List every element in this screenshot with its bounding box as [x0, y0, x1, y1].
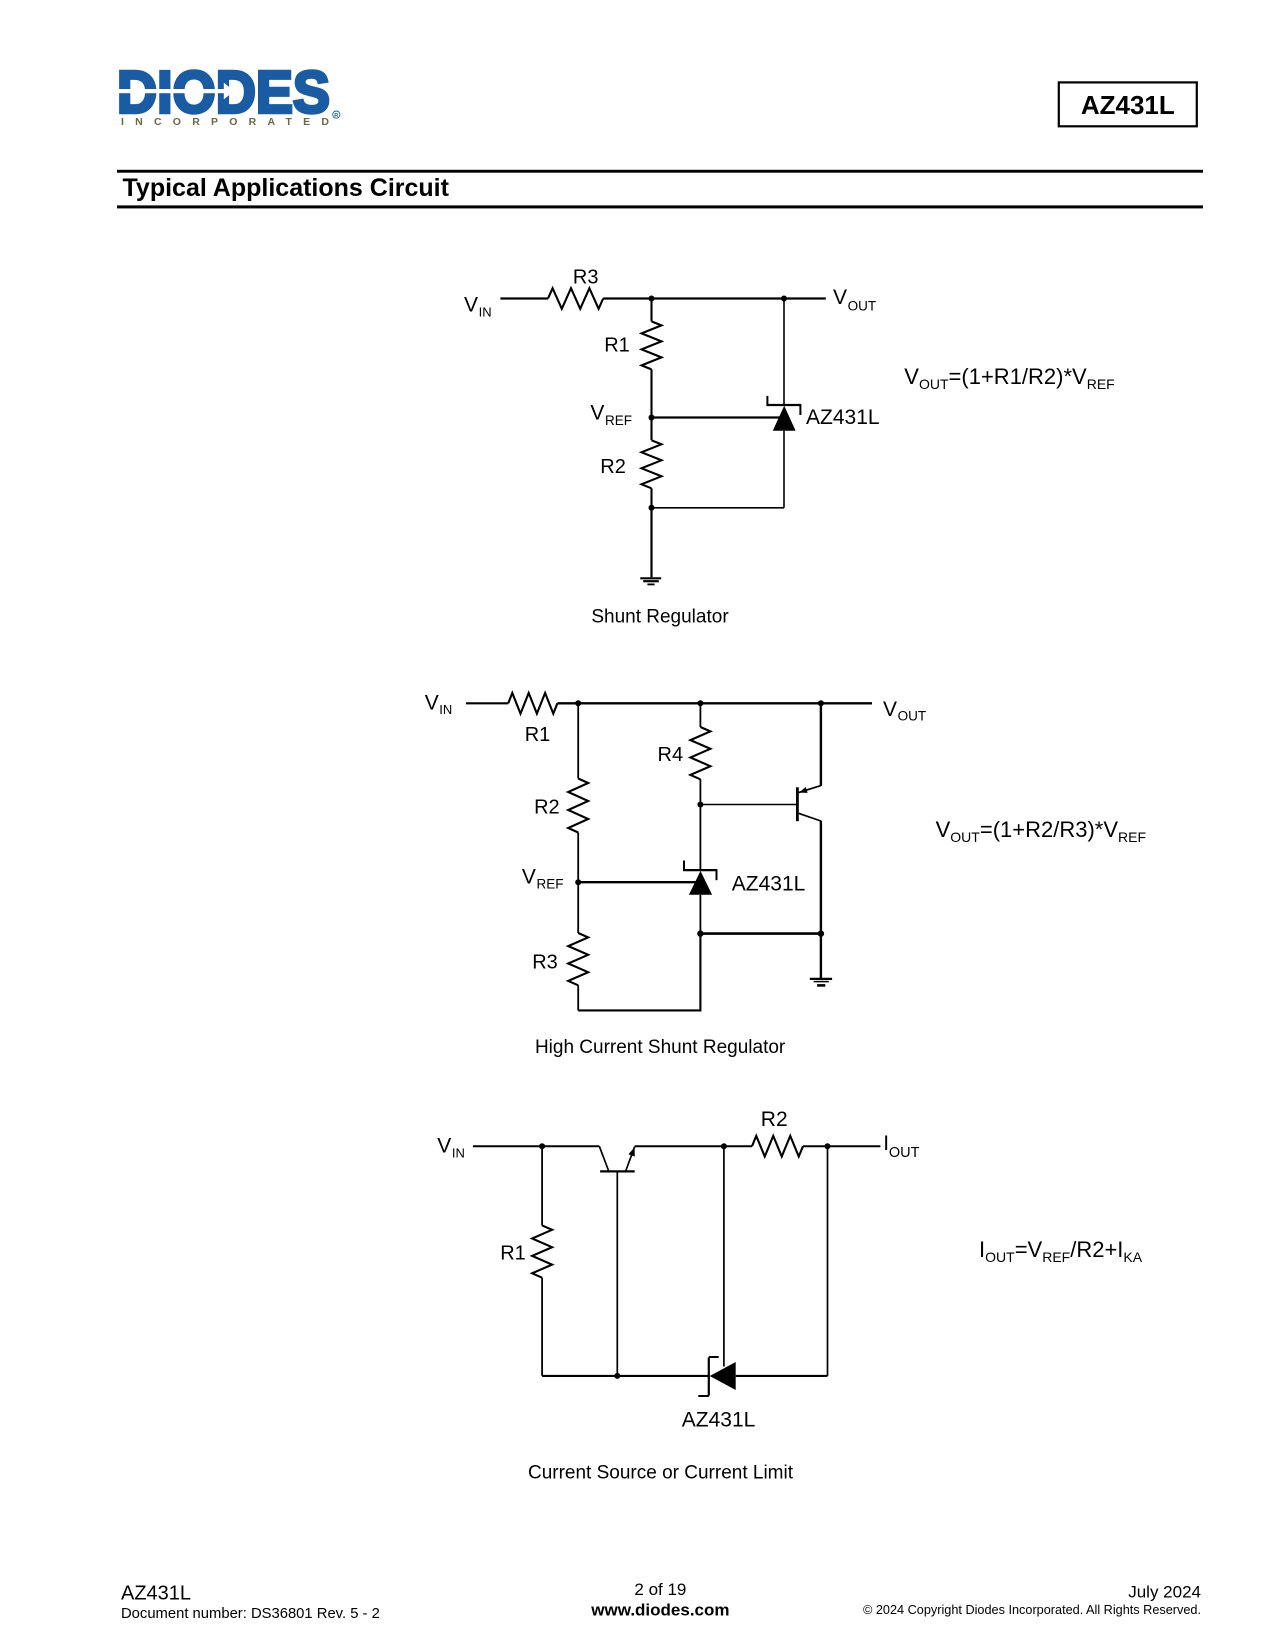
wire R4 to node D2	[699, 779, 701, 804]
svg-text:R1: R1	[525, 724, 551, 746]
wire node A2 down to R2	[577, 703, 579, 778]
resistor R3	[548, 288, 603, 309]
wire C2 to VOUT	[821, 702, 872, 704]
svg-text:V: V	[464, 294, 478, 317]
svg-text:VOUT=(1+R1/R2)*VREF: VOUT=(1+R1/R2)*VREF	[904, 364, 1114, 392]
wire node A to node B	[652, 297, 785, 299]
node B junction dot	[781, 296, 787, 302]
wire VIN to R1	[466, 702, 508, 704]
wire node D2 down to U2 cathode	[699, 805, 701, 871]
svg-text:Shunt Regulator: Shunt Regulator	[591, 606, 729, 627]
svg-text:July 2024: July 2024	[1128, 1583, 1201, 1602]
node D3 junction dot	[614, 1373, 620, 1379]
svg-text:R2: R2	[761, 1108, 788, 1131]
node VIN label	[464, 294, 492, 320]
svg-text:R2: R2	[600, 456, 626, 478]
svg-text:R1: R1	[500, 1242, 526, 1264]
wire R2 to node C3	[803, 1145, 828, 1147]
wire R2 to node VREF2	[577, 833, 579, 934]
wire node B3 down to U3 cathode	[723, 1146, 725, 1366]
svg-text:AZ431L: AZ431L	[1081, 90, 1175, 120]
wire node B3 to R2	[724, 1145, 752, 1147]
svg-text:R1: R1	[604, 335, 630, 357]
wire bottom rail	[578, 934, 700, 1011]
wire node B to VOUT	[784, 297, 826, 299]
wire node C to ground	[650, 508, 652, 578]
node IOUT label	[883, 1132, 919, 1161]
CIRCUIT-2 High Current Shunt Regulator	[425, 691, 1146, 1058]
node VREF2 junction dot	[575, 879, 581, 885]
svg-text:V: V	[883, 698, 897, 721]
svg-text:REF: REF	[537, 877, 564, 892]
node F2 junction dot	[818, 930, 824, 936]
node E2 junction dot	[697, 930, 703, 936]
CIRCUIT-3 Current Source or Current Limit	[437, 1108, 1142, 1483]
wire R2 to node C	[650, 488, 652, 508]
Diodes Incorporated logo	[116, 60, 340, 128]
wire node B down to U1 cathode	[783, 299, 785, 406]
svg-text:R3: R3	[573, 267, 599, 289]
svg-text:IN: IN	[479, 304, 492, 319]
wire Q2 emitter to node B3	[635, 1145, 724, 1147]
transistor Q1 PNP	[797, 703, 821, 933]
node D2 junction dot	[697, 802, 703, 808]
resistor R2	[752, 1136, 803, 1157]
svg-text:2 of 19: 2 of 19	[634, 1580, 686, 1599]
svg-text:R2: R2	[534, 797, 560, 819]
wire node C3 down to bottom rail	[827, 1146, 829, 1376]
svg-text:© 2024 Copyright Diodes Incorp: © 2024 Copyright Diodes Incorporated. Al…	[863, 1603, 1201, 1617]
svg-text:OUT: OUT	[889, 1145, 920, 1161]
svg-text:R4: R4	[658, 744, 684, 766]
shunt regulator U3 AZ431L symbol	[698, 1357, 735, 1396]
resistor R1	[642, 321, 662, 369]
wire U1 anode down to node C branch	[783, 431, 785, 508]
svg-text:R: R	[334, 113, 338, 119]
svg-text:V: V	[522, 865, 536, 888]
resistor R2	[568, 779, 588, 833]
resistor R1	[508, 693, 557, 714]
node VOUT label	[833, 286, 876, 314]
wire node B2 down to R4	[699, 703, 701, 727]
wire bottom rail left	[542, 1375, 709, 1377]
node VREF2 label	[522, 865, 564, 891]
svg-text:AZ431L: AZ431L	[732, 872, 806, 895]
shunt regulator U1 AZ431L symbol	[767, 396, 802, 431]
svg-text:AZ431L: AZ431L	[682, 1409, 756, 1432]
svg-text:V: V	[833, 286, 847, 309]
node C2 junction dot	[818, 700, 824, 706]
wire top rail A2 to B2	[578, 702, 700, 704]
wire R3 to bottom rail	[577, 985, 579, 1010]
svg-text:OUT: OUT	[848, 299, 877, 314]
node VIN label	[425, 691, 453, 717]
PAGE-HEADER	[116, 60, 1203, 209]
wire Q2 base down to node D3	[616, 1171, 618, 1376]
wire VIN to node A3	[473, 1145, 542, 1147]
svg-text:V: V	[437, 1135, 451, 1158]
node C junction dot	[649, 505, 655, 511]
wire base of Q1	[700, 804, 796, 806]
svg-text:Current Source or Current Limi: Current Source or Current Limit	[528, 1463, 794, 1484]
node B3 junction dot	[721, 1143, 727, 1149]
svg-text:Typical Applications Circuit: Typical Applications Circuit	[123, 174, 450, 202]
resistor R2	[642, 440, 662, 488]
wire node A to R1	[650, 299, 652, 322]
section title rule top	[117, 170, 1203, 173]
svg-text:High Current Shunt Regulator: High Current Shunt Regulator	[535, 1037, 786, 1058]
wire VREF2 to U2 reference pin	[578, 881, 695, 883]
svg-text:IN: IN	[439, 702, 452, 717]
wire node A3 to Q2 collector	[542, 1145, 599, 1147]
wire top rail B2 to C2	[700, 702, 821, 704]
svg-text:AZ431L: AZ431L	[121, 1583, 191, 1605]
wire node C3 to IOUT	[828, 1145, 881, 1147]
formula VOUT=(1+R2/R3)*VREF	[936, 817, 1146, 845]
svg-text:R3: R3	[532, 952, 558, 974]
svg-text:V: V	[590, 402, 604, 425]
node VREF junction dot	[649, 415, 655, 421]
svg-text:Document number: DS36801 Rev.: Document number: DS36801 Rev. 5 - 2	[121, 1606, 380, 1622]
wire U2 anode to node E2	[699, 895, 701, 934]
node VOUT label	[883, 698, 926, 724]
svg-text:IOUT=VREF/R2+IKA: IOUT=VREF/R2+IKA	[979, 1237, 1143, 1265]
wire VREF to U1 reference pin	[652, 416, 780, 418]
ground symbol	[640, 578, 661, 584]
svg-text:REF: REF	[605, 413, 632, 428]
wire node E2 to node F2	[700, 932, 821, 935]
wire node C to U1 anode branch	[652, 507, 785, 509]
node B2 junction dot	[697, 700, 703, 706]
wire VIN to R3	[500, 297, 548, 299]
wire R1 to node VREF	[650, 369, 652, 440]
shunt regulator U2 AZ431L symbol	[683, 861, 717, 895]
svg-text:www.diodes.com: www.diodes.com	[590, 1601, 729, 1620]
node VIN label	[437, 1135, 465, 1161]
wire node F2 to ground	[820, 934, 822, 979]
svg-text:OUT: OUT	[898, 709, 927, 724]
svg-text:V: V	[425, 691, 439, 714]
wire R3 to node A	[603, 297, 651, 299]
svg-text:IN: IN	[452, 1145, 465, 1160]
transistor Q2 PNP	[599, 1146, 635, 1171]
wire R1 to node A2	[557, 702, 578, 704]
ground symbol	[810, 979, 832, 986]
formula IOUT=VREF/R2+IKA	[979, 1237, 1143, 1265]
node VREF label	[590, 402, 632, 428]
svg-text:AZ431L: AZ431L	[806, 406, 880, 429]
wire U3 anode to bottom rail right	[736, 1375, 828, 1377]
resistor R4	[690, 727, 710, 779]
node A3 junction dot	[539, 1143, 545, 1149]
node A junction dot	[649, 296, 655, 302]
CIRCUIT-1 Shunt Regulator	[464, 267, 1115, 628]
wire R1 to bottom rail	[541, 1278, 543, 1376]
part number box AZ431L	[1059, 82, 1197, 126]
resistor R1	[532, 1225, 552, 1277]
PAGE-FOOTER	[121, 1580, 1201, 1622]
node A2 junction dot	[575, 700, 581, 706]
formula VOUT=(1+R1/R2)*VREF	[904, 364, 1114, 392]
node C3 junction dot	[825, 1143, 831, 1149]
section title rule bottom	[117, 205, 1203, 208]
resistor R3	[568, 933, 588, 985]
svg-text:VOUT=(1+R2/R3)*VREF: VOUT=(1+R2/R3)*VREF	[936, 817, 1146, 845]
wire node A3 down to R1	[541, 1146, 543, 1225]
